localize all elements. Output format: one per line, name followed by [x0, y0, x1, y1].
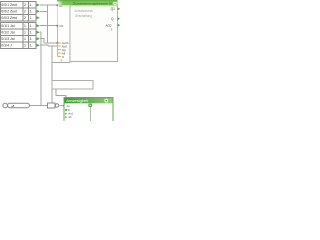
svg-text:0/0/1 Zent: 0/0/1 Zent [1, 3, 17, 7]
svg-text:Q1: Q1 [111, 7, 115, 11]
svg-text:Schlafzimmer: Schlafzimmer [74, 9, 94, 13]
lower block B2 [64, 97, 113, 122]
svg-text:1.: 1. [30, 24, 33, 28]
wires grey [30, 5, 71, 105]
svg-text:1.: 1. [30, 3, 33, 7]
wire bottom bus [30, 105, 48, 107]
pill symbol with circle [3, 103, 30, 108]
function block B1 [70, 5, 118, 62]
svg-text:0/0/2 Zent: 0/0/2 Zent [1, 10, 17, 14]
B2 green corner icon [88, 104, 92, 107]
svg-text:0/1/1 Jal: 0/1/1 Jal [1, 24, 14, 28]
svg-text:0/0/3 Zent: 0/0/3 Zent [1, 16, 17, 20]
table2 row texts [1, 24, 32, 48]
table1 row texts [1, 3, 32, 20]
green input arrows on block border [69, 42, 71, 62]
B2 row 4 [65, 116, 67, 118]
svg-text:a8: a8 [11, 104, 15, 108]
svg-text:2: 2 [24, 10, 26, 14]
B2 row 2 icon [65, 109, 67, 111]
B1 header icon [113, 2, 116, 5]
orange stubs [57, 43, 61, 57]
orange rail [56, 5, 58, 57]
wire g1r2 [40, 10, 48, 12]
pin labels left of block [61, 41, 69, 62]
svg-text:1.: 1. [30, 44, 33, 48]
small circle element [55, 104, 58, 107]
B2 header [65, 98, 113, 103]
svg-text:2: 2 [24, 16, 26, 20]
svg-text:0/1/2 Jal: 0/1/2 Jal [1, 31, 14, 35]
wire to block bottom corner [52, 61, 70, 63]
svg-text:0/1/4 J: 0/1/4 J [1, 44, 12, 48]
junction diamonds [56, 4, 58, 43]
wire pin2 horizontal [48, 45, 57, 47]
svg-text:Anwesigkeit: Anwesigkeit [66, 99, 88, 103]
svg-text:1: 1 [24, 37, 26, 41]
B1 header bar [57, 0, 118, 5]
group address table 2 [1, 22, 37, 48]
svg-text:1.: 1. [30, 10, 33, 14]
wire V1 vertical long [40, 32, 42, 105]
orange wire into B2 [59, 105, 63, 107]
svg-text:AÖ2: AÖ2 [106, 24, 112, 28]
wire corner into lower block [56, 89, 66, 97]
svg-text:1: 1 [24, 44, 26, 48]
small rect element R2 [47, 103, 55, 108]
group address table 1 [1, 2, 37, 22]
wire V2 vertical [51, 46, 53, 103]
rectangle loop element [52, 81, 93, 90]
wire g2r2 [40, 31, 41, 33]
svg-text:Ab: Ab [68, 115, 72, 119]
svg-text:1: 1 [24, 24, 26, 28]
B2 header icon [104, 99, 108, 103]
svg-text:Beschattung: Beschattung [75, 14, 92, 18]
svg-text:0/1/3 Jal: 0/1/3 Jal [1, 37, 14, 41]
svg-text:1.: 1. [30, 16, 33, 20]
table1 green arrows [37, 4, 40, 20]
wire g2r1 [40, 25, 57, 27]
B2 row 3 [65, 113, 67, 115]
svg-text:Zusammengefasste B: Zusammengefasste B [73, 2, 112, 6]
svg-text:2: 2 [24, 3, 26, 7]
svg-text:Aa1: Aa1 [68, 112, 73, 116]
svg-text:1.: 1. [30, 31, 33, 35]
B2 inner divider [90, 103, 92, 121]
wire g2r4 [40, 45, 48, 46]
svg-text:1: 1 [24, 31, 26, 35]
svg-text:1.: 1. [30, 37, 33, 41]
wire V0 vertical [47, 5, 49, 43]
svg-text:Od: Od [59, 24, 63, 28]
wire g2r3 [40, 39, 44, 43]
wire pin1 horizontal [44, 42, 57, 44]
wire g1r1 [40, 4, 57, 6]
orange arrowhead [63, 105, 65, 107]
table2 green arrows [37, 24, 40, 47]
